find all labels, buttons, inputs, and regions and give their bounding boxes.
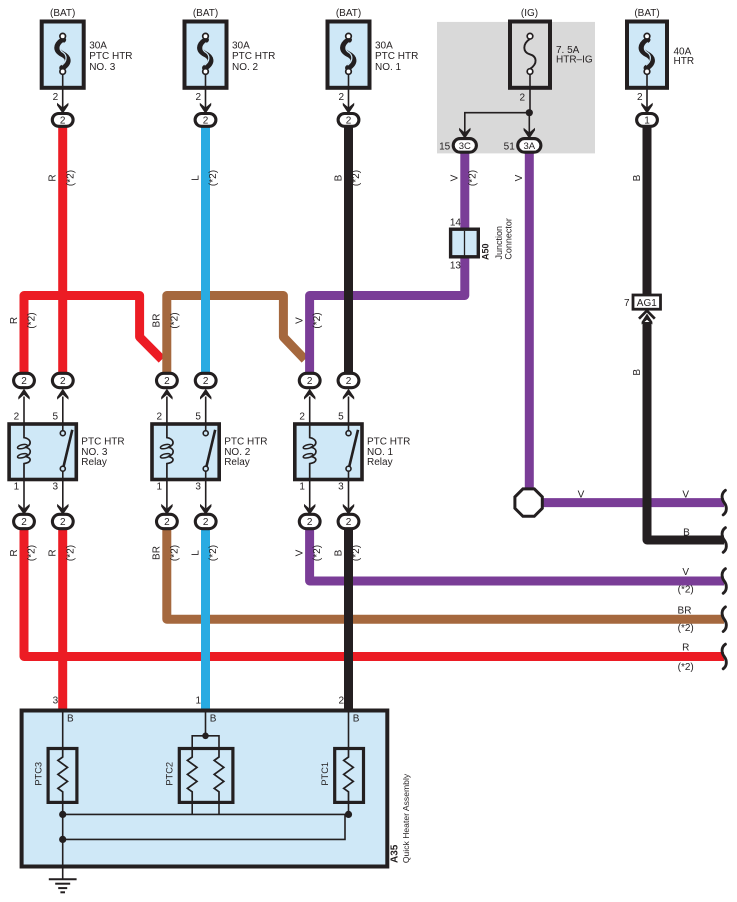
fuse 30A PTC HTR NO. 2 bbox=[185, 22, 227, 88]
svg-text:NO. 1: NO. 1 bbox=[375, 62, 402, 73]
lead assembly pin 1 to PTC2 bbox=[205, 712, 207, 736]
connector pin oval 2 (relay 1 pin 5) bbox=[338, 373, 359, 387]
svg-text:(*2): (*2) bbox=[678, 584, 694, 595]
svg-text:2: 2 bbox=[299, 412, 305, 423]
svg-text:2: 2 bbox=[346, 517, 352, 528]
arrow into connector bbox=[343, 504, 354, 515]
wire R (*2) relay NO.3 pin 1 to right edge bbox=[24, 526, 724, 657]
wire V (*2) relay NO.1 pin 1 to right edge bbox=[310, 526, 724, 581]
svg-text:(BAT): (BAT) bbox=[193, 8, 218, 19]
arrow into connector bbox=[161, 504, 172, 515]
off-page curl V (*2) bbox=[722, 569, 726, 594]
arrow into connector bbox=[200, 103, 211, 114]
svg-text:V: V bbox=[295, 317, 306, 324]
svg-text:BR: BR bbox=[152, 314, 163, 328]
relay 2 pin 2 lead bbox=[166, 397, 168, 425]
svg-text:Relay: Relay bbox=[367, 457, 393, 468]
svg-text:(*2): (*2) bbox=[678, 662, 694, 673]
wire V (*2) from 3C via A50 junction connector to relay NO.1 pin 2 bbox=[310, 152, 465, 372]
wire fuse HTR output bbox=[646, 88, 648, 108]
svg-text:3: 3 bbox=[52, 481, 58, 492]
ground bbox=[49, 879, 77, 892]
junction bbox=[59, 811, 66, 818]
relay 1 pin 1 lead bbox=[309, 480, 311, 509]
wire branch to 3A bbox=[528, 113, 530, 133]
svg-text:(*2): (*2) bbox=[351, 170, 362, 186]
svg-text:(*2): (*2) bbox=[169, 312, 180, 328]
lead assembly pin 2 to PTC1 bbox=[348, 712, 350, 749]
off-page curl B bbox=[722, 528, 726, 553]
connector pin oval 2 (relay 2 pin 5) bbox=[195, 373, 216, 387]
svg-text:R: R bbox=[682, 642, 689, 653]
arrow into connector bbox=[343, 389, 354, 400]
svg-text:5: 5 bbox=[338, 412, 344, 423]
internal bus upper bbox=[63, 813, 349, 815]
svg-text:BR: BR bbox=[152, 546, 163, 560]
svg-text:Relay: Relay bbox=[81, 457, 107, 468]
svg-text:3: 3 bbox=[338, 481, 344, 492]
arrow into connector bbox=[161, 389, 172, 400]
wire fuse output pin bbox=[348, 88, 350, 108]
svg-text:(IG): (IG) bbox=[521, 8, 538, 19]
connector pin oval 2 (relay 3 pin 5) bbox=[52, 373, 73, 387]
arrow into connector bbox=[57, 103, 68, 114]
svg-text:3: 3 bbox=[53, 696, 59, 707]
svg-text:2: 2 bbox=[307, 376, 313, 387]
svg-text:1: 1 bbox=[14, 481, 20, 492]
resistor PTC3 bbox=[58, 749, 68, 803]
svg-text:1: 1 bbox=[299, 481, 305, 492]
connector pin oval 2 (relay 2 pin 3) bbox=[195, 514, 216, 528]
wire R (*2) fuse PTC HTR NO.3 to relay NO.3 pin 5 bbox=[58, 126, 67, 372]
svg-text:2: 2 bbox=[164, 517, 170, 528]
relay 3 pin 1 lead bbox=[23, 480, 25, 509]
svg-text:2: 2 bbox=[21, 517, 27, 528]
svg-text:PTC3: PTC3 bbox=[34, 762, 44, 786]
fuse 7.5A HTR-IG bbox=[510, 22, 550, 88]
connector AG1 bbox=[633, 295, 661, 309]
svg-text:B: B bbox=[683, 527, 690, 538]
svg-text:PTC HTR: PTC HTR bbox=[89, 51, 132, 62]
svg-text:R: R bbox=[48, 174, 59, 181]
svg-text:30A: 30A bbox=[232, 41, 250, 52]
junction bbox=[59, 836, 66, 843]
quick heater assembly A35 box bbox=[22, 711, 388, 867]
arrow into connector bbox=[18, 389, 29, 400]
relay PTC HTR NO. 2 bbox=[152, 424, 219, 480]
svg-text:5: 5 bbox=[52, 412, 58, 423]
resistor PTC2 right bbox=[214, 749, 224, 803]
splice point (octagon) bbox=[515, 489, 542, 516]
svg-text:L: L bbox=[190, 550, 201, 556]
connector pin oval 2 (relay 1 pin 2) bbox=[299, 373, 320, 387]
junction connector A50 bbox=[451, 229, 479, 257]
fuse 30A PTC HTR NO. 3 bbox=[42, 22, 84, 88]
svg-text:(*2): (*2) bbox=[65, 170, 76, 186]
svg-text:2: 2 bbox=[637, 92, 643, 103]
connector pin oval 2 (relay 1 pin 3) bbox=[338, 514, 359, 528]
connector pin oval 2 (relay 3 pin 1) bbox=[14, 514, 35, 528]
wire L (*2) fuse PTC HTR NO.2 to relay NO.2 pin 5 bbox=[201, 126, 210, 372]
svg-text:BR: BR bbox=[678, 605, 692, 616]
svg-text:Junction: Junction bbox=[494, 226, 504, 260]
wire PTC1 to bus bbox=[348, 802, 350, 814]
connector pin oval 2 bbox=[52, 114, 73, 127]
svg-text:B: B bbox=[353, 714, 360, 725]
connector pin oval 3C bbox=[453, 139, 476, 153]
off-page curl V bbox=[722, 490, 726, 515]
svg-text:2: 2 bbox=[53, 92, 59, 103]
wire BR (*2) bus to relay NO.2 pin 2 / relay NO.1 bbox=[167, 296, 305, 373]
svg-text:1: 1 bbox=[195, 696, 201, 707]
wire fuse HTR-IG output bbox=[529, 88, 531, 113]
svg-text:(BAT): (BAT) bbox=[634, 8, 659, 19]
svg-text:PTC1: PTC1 bbox=[320, 762, 330, 786]
off-page curl R (*2) bbox=[722, 644, 726, 669]
wire fuse output pin bbox=[62, 88, 64, 108]
svg-text:2: 2 bbox=[203, 517, 209, 528]
junction bbox=[345, 811, 352, 818]
relay PTC HTR NO. 1 bbox=[295, 424, 362, 480]
svg-text:1: 1 bbox=[644, 115, 650, 126]
svg-text:Connector: Connector bbox=[504, 218, 514, 260]
svg-text:B: B bbox=[632, 369, 643, 376]
svg-text:V: V bbox=[578, 490, 585, 501]
relay 2 pin 3 lead bbox=[205, 480, 207, 509]
branch bracket to PTC2 elements bbox=[192, 736, 219, 749]
arrow into connector 3C bbox=[459, 128, 470, 139]
svg-text:V: V bbox=[450, 174, 461, 181]
arrow into connector bbox=[200, 504, 211, 515]
svg-text:NO. 3: NO. 3 bbox=[89, 62, 116, 73]
wire B from AG1 to right edge bbox=[647, 322, 724, 540]
svg-text:(*2): (*2) bbox=[467, 170, 478, 186]
svg-text:2: 2 bbox=[346, 376, 352, 387]
resistor PTC2 left bbox=[187, 749, 197, 803]
relay 3 pin 3 lead bbox=[62, 480, 64, 509]
svg-text:(*2): (*2) bbox=[169, 545, 180, 561]
svg-text:V: V bbox=[682, 490, 689, 501]
fuse 30A PTC HTR NO. 1 bbox=[328, 22, 370, 88]
PTC3 element box bbox=[48, 749, 77, 803]
lead assembly pin 3 to PTC3 bbox=[62, 712, 64, 749]
svg-text:HTR–IG: HTR–IG bbox=[556, 55, 593, 66]
connector pin oval 3A bbox=[518, 139, 541, 153]
junction PTC2 split bbox=[202, 733, 209, 740]
svg-text:AG1: AG1 bbox=[637, 298, 657, 309]
wire B (*2) relay NO.1 pin 3 to quick heater assembly pin 2 bbox=[344, 529, 353, 711]
junction of HTR-IG branch bbox=[526, 109, 533, 116]
svg-text:1: 1 bbox=[157, 481, 163, 492]
svg-text:2: 2 bbox=[346, 115, 352, 126]
svg-text:(*2): (*2) bbox=[351, 545, 362, 561]
off-page curl BR (*2) bbox=[722, 607, 726, 632]
svg-text:PTC HTR: PTC HTR bbox=[375, 51, 418, 62]
svg-text:HTR: HTR bbox=[674, 56, 695, 67]
svg-text:(BAT): (BAT) bbox=[50, 8, 75, 19]
arrow into connector bbox=[304, 504, 315, 515]
wire L (*2) relay NO.2 pin 3 to quick heater assembly pin 1 bbox=[201, 529, 210, 711]
arrow into connector bbox=[343, 103, 354, 114]
arrow into connector bbox=[18, 504, 29, 515]
svg-text:B: B bbox=[632, 174, 643, 181]
svg-text:2: 2 bbox=[519, 93, 525, 104]
resistor PTC1 bbox=[344, 749, 354, 803]
svg-text:14: 14 bbox=[450, 217, 462, 228]
svg-text:V: V bbox=[295, 549, 306, 556]
svg-text:2: 2 bbox=[157, 412, 163, 423]
PTC2 element box bbox=[179, 749, 233, 803]
svg-text:(*2): (*2) bbox=[678, 623, 694, 634]
svg-text:R: R bbox=[48, 549, 59, 556]
wire branch to 3C bbox=[465, 113, 530, 133]
fuse 40A HTR bbox=[627, 22, 667, 88]
arrowhead on wire B below AG1 bbox=[642, 314, 653, 325]
svg-text:B: B bbox=[210, 714, 217, 725]
svg-text:3A: 3A bbox=[523, 141, 535, 152]
arrow into connector bbox=[641, 103, 652, 114]
svg-text:PTC HTR: PTC HTR bbox=[232, 51, 275, 62]
svg-text:B: B bbox=[333, 549, 344, 556]
svg-text:2: 2 bbox=[203, 115, 209, 126]
wire R (*2) branch bus to relay NO.3 pin 2 / relay NO.2 bbox=[24, 296, 162, 373]
arrow into connector bbox=[304, 389, 315, 400]
svg-text:2: 2 bbox=[338, 92, 344, 103]
svg-text:(*2): (*2) bbox=[208, 170, 219, 186]
connector pin oval 2 (relay 3 pin 3) bbox=[52, 514, 73, 528]
wire fuse output pin bbox=[205, 88, 207, 108]
wire B fuse HTR to AG1 bbox=[643, 126, 652, 295]
svg-text:3C: 3C bbox=[459, 141, 471, 152]
PTC1 element box bbox=[335, 749, 364, 803]
svg-text:2: 2 bbox=[60, 517, 66, 528]
svg-text:2: 2 bbox=[14, 412, 20, 423]
svg-text:V: V bbox=[682, 567, 689, 578]
svg-text:V: V bbox=[514, 174, 525, 181]
relay 1 pin 5 lead bbox=[348, 397, 350, 425]
connector pin oval 2 bbox=[195, 114, 216, 127]
svg-text:A50: A50 bbox=[481, 243, 491, 260]
svg-text:2: 2 bbox=[60, 115, 66, 126]
connector pin oval 2 (relay 1 pin 1) bbox=[299, 514, 320, 528]
connector pin oval 2 (relay 2 pin 1) bbox=[157, 514, 178, 528]
svg-text:5: 5 bbox=[195, 412, 201, 423]
relay PTC HTR NO. 3 bbox=[9, 424, 76, 480]
svg-text:(*2): (*2) bbox=[312, 545, 323, 561]
relay 2 pin 5 lead bbox=[205, 397, 207, 425]
wire BR (*2) relay NO.2 pin 1 to right edge bbox=[167, 526, 724, 619]
svg-text:15: 15 bbox=[439, 141, 451, 152]
IG power source panel (gray) bbox=[437, 22, 595, 154]
svg-text:R: R bbox=[9, 549, 20, 556]
svg-text:L: L bbox=[190, 175, 201, 181]
wire PTC2 left to bus bbox=[191, 802, 193, 814]
svg-text:30A: 30A bbox=[89, 41, 107, 52]
arrow into connector bbox=[57, 389, 68, 400]
svg-text:13: 13 bbox=[450, 261, 462, 272]
relay 3 pin 2 lead bbox=[23, 397, 25, 425]
svg-text:(*2): (*2) bbox=[312, 312, 323, 328]
wire B (*2) fuse PTC HTR NO.1 to relay NO.1 pin 5 bbox=[344, 126, 353, 372]
connector pin oval 2 bbox=[338, 114, 359, 127]
wire PTC2 right to bus bbox=[218, 802, 220, 814]
arrow into connector 3A bbox=[524, 128, 535, 139]
relay 3 pin 5 lead bbox=[62, 397, 64, 425]
connector pin oval 1 bbox=[637, 114, 658, 127]
svg-text:(BAT): (BAT) bbox=[336, 8, 361, 19]
wire PTC3 to ground bbox=[62, 802, 64, 879]
svg-text:(*2): (*2) bbox=[27, 545, 38, 561]
svg-text:A35: A35 bbox=[389, 844, 400, 863]
arrow into connector bbox=[200, 389, 211, 400]
svg-text:(*2): (*2) bbox=[27, 312, 38, 328]
svg-text:2: 2 bbox=[164, 376, 170, 387]
svg-text:2: 2 bbox=[338, 696, 344, 707]
svg-text:B: B bbox=[67, 714, 74, 725]
relay 1 pin 3 lead bbox=[348, 480, 350, 509]
svg-text:2: 2 bbox=[195, 92, 201, 103]
svg-text:PTC2: PTC2 bbox=[165, 762, 175, 786]
svg-text:51: 51 bbox=[504, 141, 516, 152]
connector pin oval 2 (relay 2 pin 2) bbox=[157, 373, 178, 387]
svg-text:B: B bbox=[333, 174, 344, 181]
internal bus lower bbox=[63, 814, 345, 839]
svg-text:2: 2 bbox=[203, 376, 209, 387]
svg-text:R: R bbox=[9, 317, 20, 324]
svg-text:3: 3 bbox=[195, 481, 201, 492]
arrow into connector bbox=[57, 504, 68, 515]
svg-text:Relay: Relay bbox=[224, 457, 250, 468]
svg-text:(*2): (*2) bbox=[208, 545, 219, 561]
svg-text:30A: 30A bbox=[375, 41, 393, 52]
svg-text:7: 7 bbox=[624, 298, 630, 309]
svg-text:NO. 2: NO. 2 bbox=[232, 62, 259, 73]
wire R (*2) relay NO.3 pin 3 to quick heater assembly pin 3 bbox=[58, 529, 67, 711]
wire V from 3A to splice and right edge bbox=[529, 152, 724, 503]
relay 1 pin 2 lead bbox=[309, 397, 311, 425]
chevron arrow below AG1 bbox=[639, 311, 655, 319]
connector pin oval 2 (relay 3 pin 2) bbox=[14, 373, 35, 387]
svg-text:Quick Heater Assembly: Quick Heater Assembly bbox=[401, 773, 411, 863]
svg-text:2: 2 bbox=[307, 517, 313, 528]
relay 2 pin 1 lead bbox=[166, 480, 168, 509]
svg-text:2: 2 bbox=[21, 376, 27, 387]
svg-text:(*2): (*2) bbox=[65, 545, 76, 561]
svg-text:2: 2 bbox=[60, 376, 66, 387]
